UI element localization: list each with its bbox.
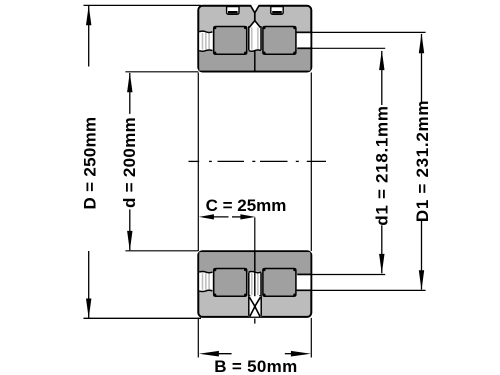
svg-text:d1 = 218.1mm: d1 = 218.1mm <box>373 105 392 225</box>
split line inner ring <box>254 252 256 272</box>
roller right <box>262 26 296 55</box>
extension line d top <box>125 71 198 73</box>
svg-text:D = 250mm: D = 250mm <box>80 117 99 210</box>
split line through bottom cage <box>254 272 256 297</box>
ring split V-notch <box>250 5 259 13</box>
outer ring body <box>198 6 311 72</box>
extension line D1 bottom <box>310 289 426 291</box>
gap between ribs, right <box>297 33 311 47</box>
dimension C line + arrows <box>199 214 256 219</box>
extension line D1 top <box>310 31 426 33</box>
extension line right face vertical <box>310 73 312 252</box>
centerline axis horizontal <box>189 160 327 162</box>
roller left <box>213 26 247 55</box>
center split column <box>248 5 261 52</box>
extension line d1 bottom <box>310 274 385 276</box>
extension line d bottom <box>125 250 198 252</box>
cage peak <box>250 21 260 28</box>
outer ring rib line right <box>296 31 312 33</box>
svg-text:B = 50mm: B = 50mm <box>214 357 297 375</box>
bearing top half section <box>198 5 312 72</box>
outer ring body <box>198 251 311 317</box>
roller left <box>213 268 247 297</box>
extension line D top <box>84 4 202 6</box>
cage band left <box>199 31 212 51</box>
lubrication notch right <box>271 7 283 15</box>
inner ring strip <box>199 50 310 71</box>
bearing bottom half section <box>198 251 312 317</box>
split line inner ring <box>254 51 256 71</box>
dimension d line + arrows <box>127 72 132 251</box>
dimension d1 line + arrows <box>379 50 384 274</box>
ring split X-notch bottom <box>249 296 262 316</box>
extension line C center <box>254 217 256 272</box>
svg-text:C = 25mm: C = 25mm <box>206 196 287 215</box>
centerline axis vertical tick bottom <box>254 318 256 323</box>
gap between ribs, right <box>297 275 311 289</box>
extension line left face vertical <box>197 73 199 252</box>
lubrication notch left <box>227 7 239 15</box>
center split column <box>248 271 261 296</box>
inner ring rib line right <box>297 47 312 49</box>
extension line d1 top <box>310 47 385 49</box>
roller right <box>262 268 296 297</box>
cage band left <box>199 271 212 291</box>
inner ring rib line right <box>297 273 312 275</box>
dimension D line + arrows <box>86 5 91 318</box>
ring split pinch <box>254 13 256 21</box>
inner ring strip <box>199 252 310 273</box>
dimension B line + arrows <box>199 351 311 357</box>
extension line D bottom <box>84 317 202 319</box>
svg-text:d = 200mm: d = 200mm <box>120 117 139 208</box>
svg-text:D1 = 231.2mm: D1 = 231.2mm <box>413 100 432 222</box>
outer ring rib line right <box>296 289 312 291</box>
dimension D1 line + arrows <box>419 33 424 290</box>
